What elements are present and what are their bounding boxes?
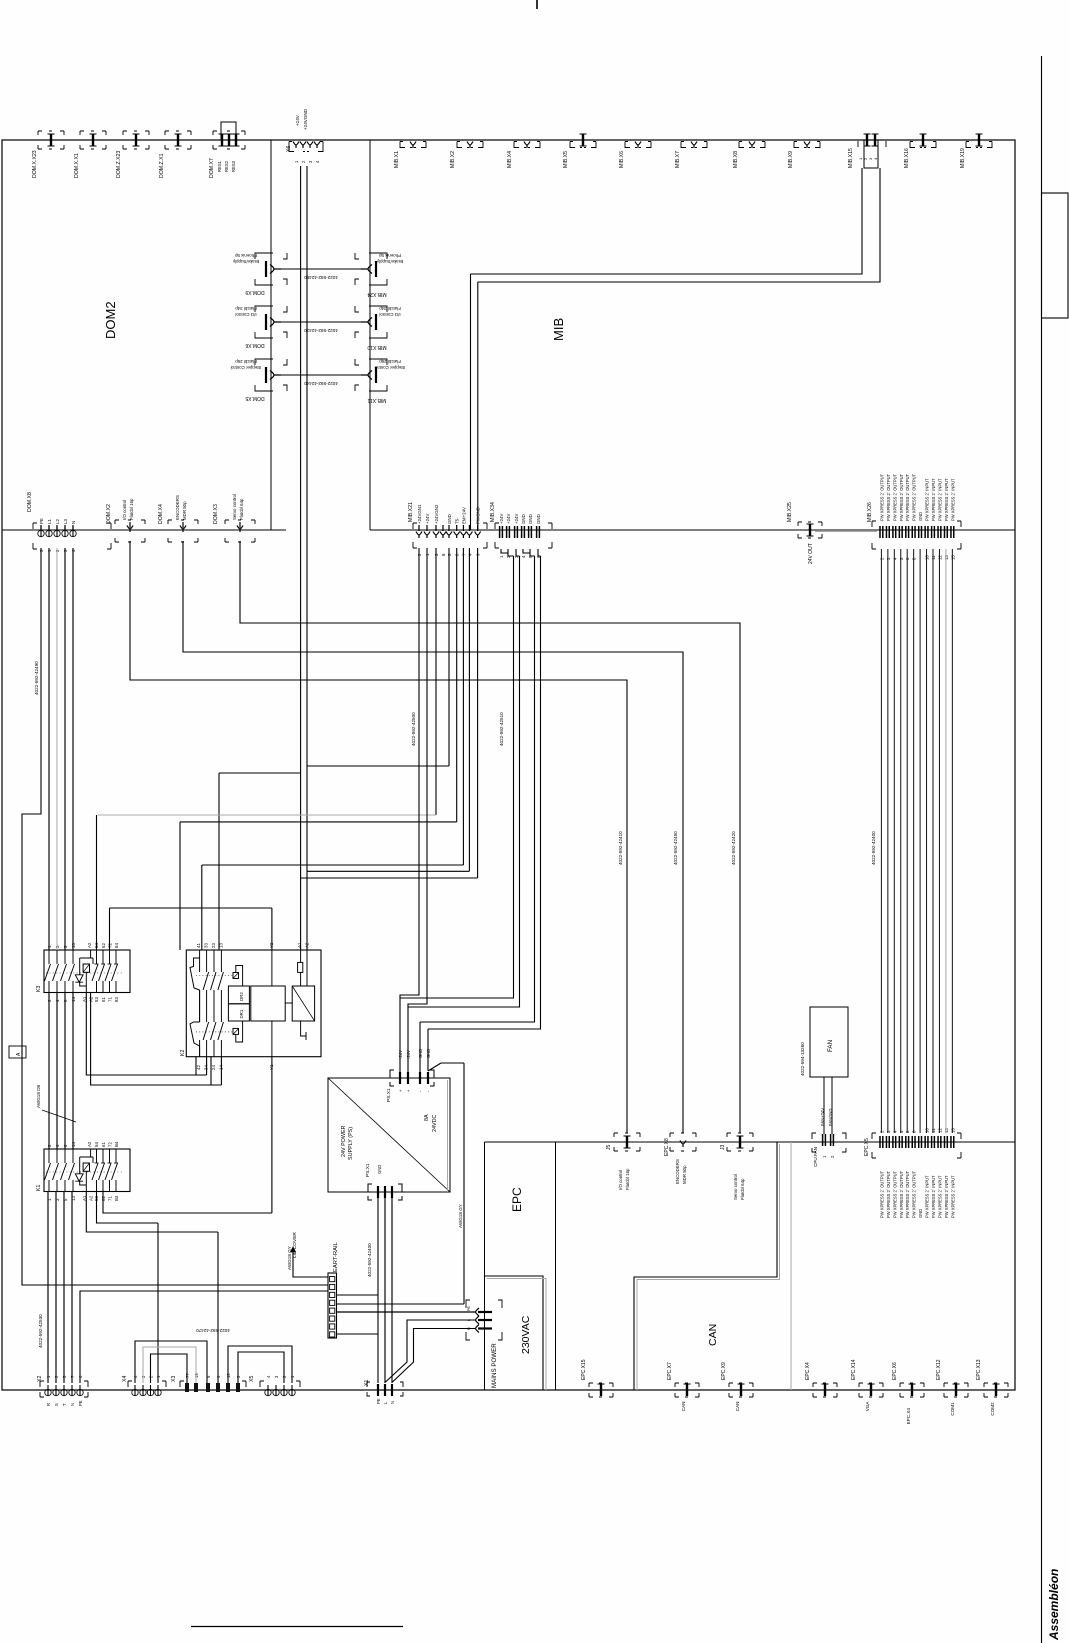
- sheet revision box: [1042, 193, 1069, 318]
- svg-text:MIB.X2: MIB.X2: [450, 151, 456, 168]
- connector EPC.X15: [589, 1383, 613, 1397]
- svg-text:PW XPRESS 2´ OUTPUT: PW XPRESS 2´ OUTPUT: [912, 473, 917, 521]
- wire FAN+24V: [823, 1077, 825, 1134]
- wire K1 53 to X4: [97, 1192, 159, 1383]
- EPC gray divider: [790, 1142, 792, 1390]
- wire mains L: [386, 1320, 476, 1382]
- EPC inner divider: [555, 1142, 557, 1390]
- svg-text:54: 54: [94, 1142, 99, 1147]
- svg-text:GND: GND: [521, 514, 526, 524]
- connector MIB.X7: [681, 142, 707, 148]
- svg-text:X4: X4: [122, 1376, 128, 1382]
- svg-text:Stepper Control: Stepper Control: [231, 365, 262, 370]
- wire PW XPRESS 9: [932, 549, 934, 1133]
- svg-text:X6: X6: [286, 146, 292, 152]
- connector J3: [727, 1133, 753, 1151]
- connector MIB.X5: [570, 142, 596, 148]
- svg-text:K2: K2: [180, 1050, 186, 1056]
- svg-text:MIB.X34: MIB.X34: [490, 502, 496, 522]
- svg-text:PW XPRESS 2´ OUTPUT: PW XPRESS 2´ OUTPUT: [912, 1170, 917, 1218]
- wire K1 to X2 T: [63, 1192, 65, 1383]
- svg-text:AWG18 GY: AWG18 GY: [458, 1204, 463, 1228]
- svg-text:4022-592-42500: 4022-592-42500: [411, 712, 416, 746]
- CAN zone shadow: [637, 1144, 780, 1390]
- svg-text:N: N: [71, 521, 76, 524]
- svg-text:4022-592-42440: 4022-592-42440: [304, 381, 338, 386]
- svg-text:A2: A2: [87, 1141, 92, 1147]
- connector mains power inlet: [466, 1300, 502, 1340]
- frame cabinet outline: [2, 140, 1015, 1390]
- svg-text:MIB.X6: MIB.X6: [619, 151, 625, 168]
- svg-text:+24V: +24V: [398, 1050, 403, 1060]
- wire K3 to K1 phase 1: [48, 992, 50, 1149]
- wire PW XPRESS 3: [893, 549, 895, 1133]
- svg-text:23: 23: [211, 943, 216, 948]
- svg-text:PE: PE: [39, 518, 44, 524]
- svg-text:Flatcbl 26p: Flatcbl 26p: [379, 359, 401, 364]
- wire PW XPRESS 4: [900, 549, 902, 1133]
- svg-text:LID COVER: LID COVER: [292, 1232, 298, 1258]
- fan unit: [810, 1007, 848, 1077]
- svg-text:ENCODERS: ENCODERS: [175, 495, 180, 520]
- svg-text:RES1: RES1: [217, 160, 222, 172]
- wire PW XPRESS 11: [945, 549, 947, 1133]
- connector EPC.X8: [670, 1133, 696, 1151]
- svg-text:Servo control: Servo control: [733, 1174, 738, 1200]
- relay unit K2: [186, 950, 321, 1057]
- connector EPC.X12: [944, 1383, 968, 1397]
- svg-text:MIB.X26: MIB.X26: [867, 502, 873, 522]
- svg-text:K3: K3: [36, 986, 42, 992]
- connector X4: [128, 1381, 166, 1387]
- svg-text:PW XPRESS 2´ INPUT: PW XPRESS 2´ INPUT: [937, 1175, 942, 1218]
- svg-text:33: 33: [204, 943, 209, 948]
- svg-text:PW XPRESS 2´ OUTPUT: PW XPRESS 2´ OUTPUT: [886, 1170, 891, 1218]
- svg-text:EPC.X13: EPC.X13: [976, 1359, 982, 1380]
- svg-text:PE: PE: [467, 1305, 471, 1311]
- svg-text:A1: A1: [297, 942, 302, 948]
- svg-text:Assembléon: Assembléon: [1047, 1569, 1061, 1641]
- 230VAC box: [485, 1276, 544, 1390]
- svg-text:COM2: COM2: [990, 1402, 995, 1416]
- connector DOM.X.X23: [38, 131, 64, 149]
- svg-text:EPC.X7: EPC.X7: [667, 1362, 673, 1380]
- connector EPC.X9: [729, 1383, 753, 1397]
- wire PW XPRESS 1: [880, 549, 882, 1133]
- svg-text:Flatcbl 34p: Flatcbl 34p: [235, 306, 257, 311]
- svg-text:MIB.X15: MIB.X15: [848, 148, 854, 168]
- wire PW XPRESS 6: [913, 549, 915, 1133]
- wire K3 coil A1 to K2.34: [86, 993, 206, 1076]
- connector X6: [289, 142, 323, 152]
- wire K2 24 down: [210, 1057, 212, 1085]
- wire jumper X3 to X5.1: [228, 1346, 292, 1383]
- svg-text:4022-592-42400: 4022-592-42400: [871, 831, 876, 865]
- connector J5: [614, 1133, 640, 1151]
- connector PS.X1 top: [390, 1070, 434, 1086]
- connector X5: [260, 1381, 300, 1387]
- svg-text:+24V: +24V: [295, 114, 300, 126]
- contactor K1: [44, 1149, 130, 1192]
- wire X6.2 to K2.A2: [306, 166, 308, 950]
- wire DOM.X4 to EPC.X8 cable: [183, 541, 683, 1133]
- wire branch h773: [219, 773, 301, 950]
- svg-text:RES2: RES2: [224, 160, 229, 172]
- wire PW XPRESS 12: [951, 549, 953, 1133]
- connector DOM.X2: [115, 520, 145, 542]
- svg-text:I/O Control: I/O Control: [379, 312, 400, 317]
- svg-text:+24V: +24V: [499, 514, 504, 524]
- svg-text:EPC.X6: EPC.X6: [892, 1362, 898, 1380]
- svg-text:PS.X1: PS.X1: [386, 1088, 392, 1102]
- svg-text:71: 71: [108, 1196, 113, 1201]
- arrow lid cover: [291, 1247, 296, 1252]
- svg-text:PW XPRESS 2´ OUTPUT: PW XPRESS 2´ OUTPUT: [892, 1170, 897, 1218]
- wire DOM.X8 L1: [48, 548, 50, 950]
- svg-text:PE: PE: [376, 1398, 381, 1404]
- svg-text:+24VGN2: +24VGN2: [434, 504, 439, 524]
- power supply PS box: [328, 1078, 450, 1192]
- connector DOM.X8: [33, 523, 111, 549]
- wire PW XPRESS 2: [887, 549, 889, 1133]
- svg-text:GND: GND: [528, 514, 533, 524]
- earth rail: [328, 1273, 337, 1338]
- connector MIB.X21: [413, 523, 487, 548]
- svg-text:Stepper Control: Stepper Control: [375, 365, 406, 370]
- svg-text:4022-592-42450: 4022-592-42450: [673, 831, 678, 865]
- svg-text:EPC.X15: EPC.X15: [581, 1359, 587, 1380]
- MIB box left edge: [369, 140, 371, 530]
- svg-text:PW XPRESS 2´ INPUT: PW XPRESS 2´ INPUT: [944, 1175, 949, 1218]
- svg-text:+24VGN1: +24VGN1: [417, 504, 422, 524]
- svg-text:PW XPRESS 2´ OUTPUT: PW XPRESS 2´ OUTPUT: [892, 473, 897, 521]
- wire MIB.X21.4 to K2.A2: [307, 548, 469, 871]
- svg-text:B4: B4: [114, 1141, 119, 1147]
- svg-text:ENCODERS: ENCODERS: [675, 1159, 680, 1184]
- wire mains PE to earth rail: [337, 1311, 476, 1313]
- resistor block above DOM.X7: [221, 122, 236, 140]
- connector PS.X1 bottom: [368, 1184, 402, 1200]
- connector pair DOM.X9 / MIB.X24 brake supply: [255, 253, 287, 285]
- wire PW XPRESS 8: [926, 549, 928, 1133]
- wire branch h766: [307, 548, 449, 766]
- svg-text:PW XPRESS 2´ INPUT: PW XPRESS 2´ INPUT: [931, 1175, 936, 1218]
- svg-text:CAN: CAN: [735, 1401, 740, 1411]
- svg-text:PW XPRESS 2´ OUTPUT: PW XPRESS 2´ OUTPUT: [879, 473, 884, 521]
- wire K1 to X2 R: [47, 1192, 49, 1383]
- svg-text:PW XPRESS 2´ INPUT: PW XPRESS 2´ INPUT: [931, 478, 936, 521]
- wire lid cover earth: [293, 1250, 328, 1277]
- svg-text:PW XPRESS 2´ INPUT: PW XPRESS 2´ INPUT: [925, 478, 930, 521]
- svg-text:4022-592-42430: 4022-592-42430: [304, 328, 338, 333]
- svg-text:T: T: [62, 1403, 67, 1406]
- svg-text:4022-592-42410: 4022-592-42410: [618, 831, 623, 865]
- svg-text:I/O control: I/O control: [618, 1170, 623, 1190]
- svg-text:230VAC: 230VAC: [520, 1315, 532, 1354]
- svg-text:83: 83: [114, 997, 119, 1002]
- svg-text:24VDC: 24VDC: [432, 1115, 438, 1132]
- connector MIB.X34: [495, 523, 552, 548]
- connector pair DOM.X6 / MIB.X10 I/O control: [255, 306, 287, 338]
- svg-text:42: 42: [196, 1065, 201, 1070]
- connector MIB.X6: [625, 142, 651, 148]
- wire DOM.X8 L3: [64, 548, 66, 950]
- DOM2 box bottom edge: [2, 529, 286, 531]
- svg-text:DOM.X6: DOM.X6: [245, 342, 264, 348]
- svg-text:PW XPRESS 2´ OUTPUT: PW XPRESS 2´ OUTPUT: [899, 1170, 904, 1218]
- wire MIB.X21 T5- to relay: [180, 548, 457, 950]
- svg-text:SUPPLY (PS): SUPPLY (PS): [348, 1127, 354, 1160]
- svg-text:MIB.X24: MIB.X24: [367, 291, 386, 297]
- svg-text:A2: A2: [89, 1195, 94, 1201]
- svg-text:EPC.X4: EPC.X4: [805, 1362, 811, 1380]
- svg-text:DOM.X8: DOM.X8: [27, 492, 33, 512]
- svg-text:S: S: [54, 1403, 59, 1406]
- svg-text:PW XPRESS 2´ OUTPUT: PW XPRESS 2´ OUTPUT: [899, 473, 904, 521]
- wire PS L to X1: [384, 1198, 386, 1383]
- connector MIB.X19: [966, 142, 992, 148]
- svg-text:MIB.X1: MIB.X1: [394, 151, 400, 168]
- svg-text:MIB.X10: MIB.X10: [367, 344, 386, 350]
- svg-text:DOM.X3: DOM.X3: [213, 504, 219, 524]
- wire K1 to X2 S: [55, 1192, 57, 1383]
- svg-text:X5: X5: [249, 1376, 255, 1382]
- connector MIB.X2: [457, 142, 483, 148]
- svg-text:61: 61: [101, 997, 106, 1002]
- connector DOM.X7 RES1 RES2 RES3: [213, 131, 245, 149]
- connector EPC.X4: [813, 1383, 837, 1397]
- svg-text:MDR 50p: MDR 50p: [682, 1165, 687, 1184]
- svg-text:EPC.X9: EPC.X9: [721, 1362, 727, 1380]
- svg-text:B3: B3: [114, 1195, 119, 1201]
- svg-text:MAINS POWER: MAINS POWER: [491, 1343, 498, 1388]
- connector MIB.X8: [739, 142, 765, 148]
- connector MIB.X9: [794, 142, 820, 148]
- svg-text:+24V: +24V: [425, 514, 430, 524]
- svg-text:4022-592-42470: 4022-592-42470: [196, 1328, 230, 1333]
- title block base line: [191, 1626, 403, 1628]
- wire MIB.X34 4+5 GND: [420, 549, 535, 1078]
- svg-text:FANGND: FANGND: [828, 1109, 833, 1126]
- svg-text:41: 41: [196, 943, 201, 948]
- wire PS PE to X1/rail: [337, 1198, 379, 1383]
- sheet border line right: [1041, 56, 1043, 1643]
- svg-text:34: 34: [204, 1065, 209, 1070]
- svg-text:GND: GND: [377, 1165, 382, 1174]
- wire PW XPRESS 10: [938, 549, 940, 1133]
- svg-text:EPC.X14: EPC.X14: [851, 1359, 857, 1380]
- svg-text:DOM.X4: DOM.X4: [158, 504, 164, 524]
- svg-text:PW XPRESS 2´ INPUT: PW XPRESS 2´ INPUT: [950, 1175, 955, 1218]
- svg-text:4022-592-42530: 4022-592-42530: [38, 1314, 43, 1348]
- svg-text:J3: J3: [720, 1145, 726, 1151]
- svg-text:N: N: [70, 1403, 75, 1406]
- svg-text:84: 84: [114, 943, 119, 948]
- connector MIB.X4: [514, 142, 540, 148]
- svg-text:L3: L3: [63, 519, 68, 524]
- svg-text:EPC.X12: EPC.X12: [936, 1359, 942, 1380]
- svg-text:+24VGND: +24VGND: [303, 108, 308, 130]
- svg-text:MIB.X25: MIB.X25: [787, 502, 793, 522]
- wire MIB.X34 6 GND: [428, 549, 541, 1071]
- wire MIB.X21.2 to PS +24V: [400, 548, 419, 1078]
- svg-text:Flatcbl 64p: Flatcbl 64p: [239, 498, 244, 520]
- svg-text:EPC.X4: EPC.X4: [906, 1408, 911, 1425]
- wire K3 coil A2 to K2.14: [91, 993, 222, 1086]
- svg-text:GND: GND: [536, 514, 541, 524]
- svg-text:Brake/Supply: Brake/Supply: [232, 259, 259, 264]
- connector MIB.X16: [910, 142, 936, 148]
- svg-text:Flatcbl 16p: Flatcbl 16p: [625, 1168, 630, 1190]
- svg-text:71: 71: [108, 997, 113, 1002]
- wire DOM.X3 to J3 cable: [240, 541, 740, 1133]
- wire K3 to K1 phase 4: [72, 992, 74, 1149]
- svg-text:PW XPRESS 2´ INPUT: PW XPRESS 2´ INPUT: [944, 478, 949, 521]
- svg-text:DOM.X7: DOM.X7: [209, 158, 215, 178]
- wire K1 62 to K2 Y1: [103, 1057, 272, 1213]
- svg-text:PW XPRESS 2´ OUTPUT: PW XPRESS 2´ OUTPUT: [905, 473, 910, 521]
- svg-text:R: R: [46, 1403, 51, 1406]
- DOM2 box right edge: [270, 140, 272, 530]
- svg-text:4022-592-42490: 4022-592-42490: [34, 661, 39, 695]
- svg-text:MIB.X21: MIB.X21: [408, 502, 414, 522]
- svg-text:53: 53: [94, 997, 99, 1002]
- connector DOM.X4: [168, 520, 198, 542]
- connector MIB.X26: [872, 521, 961, 549]
- svg-text:4022-592-42450: 4022-592-42450: [304, 275, 338, 280]
- svg-text:COM1: COM1: [950, 1402, 955, 1416]
- svg-text:DOM.X5: DOM.X5: [245, 395, 264, 401]
- svg-text:X3: X3: [171, 1376, 177, 1382]
- connector DOM.X3: [225, 520, 255, 542]
- 230VAC box shadow: [487, 1279, 547, 1391]
- svg-text:DOM.X.X23: DOM.X.X23: [32, 150, 38, 178]
- svg-text:GND: GND: [918, 1209, 923, 1218]
- MIB box bottom edge: [370, 529, 1015, 531]
- wire gray bus drop to K3: [96, 815, 98, 950]
- svg-text:MIB.X7: MIB.X7: [675, 151, 681, 168]
- svg-text:T5-: T5-: [455, 517, 460, 524]
- svg-text:DOM.X.X1: DOM.X.X1: [74, 153, 80, 178]
- svg-text:PW XPRESS 2´ INPUT: PW XPRESS 2´ INPUT: [950, 478, 955, 521]
- wire MIB.X21.3 to gray bus: [435, 548, 437, 815]
- wire FANGND: [831, 1077, 833, 1134]
- svg-text:Flatcbl 34p: Flatcbl 34p: [379, 306, 401, 311]
- svg-text:DR1: DR1: [239, 1009, 244, 1018]
- wire MIB.X21 EM+24V to K2.33: [202, 548, 464, 950]
- wire jumper X3 to X5.2: [238, 1352, 284, 1383]
- svg-text:MIB.X19: MIB.X19: [960, 148, 966, 168]
- wire K3 to K1 phase 2: [56, 992, 58, 1149]
- svg-text:Phoenix 5p: Phoenix 5p: [234, 253, 257, 258]
- svg-text:62: 62: [101, 943, 106, 948]
- wire DOM.X2 to J5 cable: [130, 541, 627, 1133]
- svg-text:CAN: CAN: [707, 1324, 719, 1346]
- wire DOM.X8 N: [72, 548, 74, 950]
- svg-text:DOM.Z.X1: DOM.Z.X1: [159, 153, 165, 178]
- svg-text:EART-RAIL: EART-RAIL: [333, 1241, 339, 1272]
- svg-text:X1: X1: [364, 1380, 370, 1386]
- svg-text:EPC.X5: EPC.X5: [864, 1138, 870, 1156]
- power supply box shadow: [447, 1080, 449, 1192]
- svg-text:PE: PE: [78, 1400, 83, 1406]
- wire K1 to X2 N: [71, 1192, 73, 1383]
- svg-text:Flatcbl 16p: Flatcbl 16p: [129, 498, 134, 520]
- svg-text:EPC: EPC: [510, 1187, 524, 1212]
- svg-text:4022-592-42420: 4022-592-42420: [731, 831, 736, 865]
- connector DOM.Z.X23: [123, 131, 149, 149]
- svg-text:+24V: +24V: [406, 1050, 411, 1060]
- wire mains N: [393, 1329, 476, 1383]
- svg-text:FAN+24V: FAN+24V: [820, 1108, 825, 1126]
- wire MIB.X34 1+2 to PS: [400, 549, 514, 998]
- svg-text:Flatcbl 26p: Flatcbl 26p: [235, 359, 257, 364]
- svg-text:61: 61: [101, 1142, 106, 1147]
- svg-text:72: 72: [108, 1142, 113, 1147]
- svg-text:PS.X1: PS.X1: [365, 1163, 371, 1177]
- wire gray distribution bus: [98, 814, 436, 816]
- svg-text:AWG18 D8: AWG18 D8: [36, 1084, 41, 1108]
- wire jumper X4.2 to X3: [151, 1354, 188, 1383]
- svg-text:EM+24V: EM+24V: [461, 507, 466, 524]
- svg-text:I/O control: I/O control: [122, 500, 127, 520]
- EPC box top edge: [485, 1141, 1016, 1143]
- svg-text:MIB.X16: MIB.X16: [904, 148, 910, 168]
- svg-text:J5: J5: [606, 1145, 612, 1151]
- svg-text:DOM.X2: DOM.X2: [106, 504, 112, 524]
- connector DOM.X.X1: [80, 131, 106, 149]
- sheet centre fold mark: [536, 0, 538, 9]
- svg-text:MIB.X5: MIB.X5: [563, 151, 569, 168]
- svg-text:L1: L1: [47, 519, 52, 524]
- connector X3: [180, 1381, 246, 1387]
- svg-text:AWG18 GY: AWG18 GY: [287, 1246, 292, 1270]
- svg-text:FAN: FAN: [827, 1040, 834, 1052]
- wire MIB.X21.1 to PS +24V: [408, 548, 427, 1078]
- svg-text:X2: X2: [37, 1376, 43, 1382]
- svg-text:L2: L2: [55, 519, 60, 524]
- leader line AWG18 D8: [42, 1110, 76, 1122]
- wire PS GND to earth rail: [337, 1063, 465, 1304]
- EPC box left edge: [484, 1142, 486, 1390]
- svg-text:+24V: +24V: [506, 514, 511, 524]
- svg-text:EPC.X8: EPC.X8: [664, 1138, 670, 1156]
- power supply diagonal: [328, 1078, 450, 1192]
- svg-text:PW XPRESS 2´ INPUT: PW XPRESS 2´ INPUT: [925, 1175, 930, 1218]
- svg-text:MDR 50p: MDR 50p: [182, 501, 187, 520]
- svg-text:DOM2: DOM2: [103, 301, 118, 339]
- svg-text:MIB.X9: MIB.X9: [788, 151, 794, 168]
- svg-text:24V OUT: 24V OUT: [808, 543, 814, 564]
- svg-text:GND: GND: [447, 514, 452, 524]
- svg-text:DR2: DR2: [239, 992, 244, 1001]
- connector EPC.X7: [675, 1383, 699, 1397]
- CAN zone boundary: [634, 1142, 777, 1390]
- svg-text:VGA: VGA: [865, 1401, 870, 1412]
- svg-text:Brake/Supply: Brake/Supply: [376, 259, 403, 264]
- svg-text:PW XPRESS 2´ OUTPUT: PW XPRESS 2´ OUTPUT: [886, 473, 891, 521]
- connector DOM.Z.X1: [165, 131, 191, 149]
- svg-text:DOM.Z.X23: DOM.Z.X23: [116, 151, 122, 178]
- connector X1: [367, 1382, 403, 1396]
- svg-text:MIB.X4: MIB.X4: [507, 151, 513, 168]
- svg-text:Flatcbl 64p: Flatcbl 64p: [740, 1178, 745, 1200]
- wire MIB.X15 1: [471, 168, 863, 530]
- connector EPC.X5: [872, 1133, 961, 1158]
- svg-text:Servo control: Servo control: [232, 494, 237, 520]
- marker A on frame: [9, 1046, 26, 1058]
- svg-text:I/O Control: I/O Control: [235, 312, 256, 317]
